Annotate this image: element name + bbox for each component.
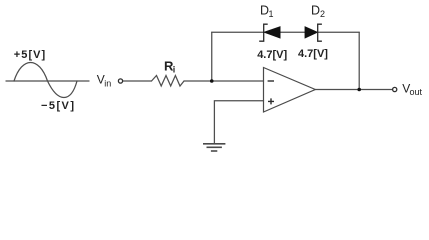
resistor Ri: [152, 76, 185, 87]
wire Vin terminal to resistor Ri: [123, 80, 152, 82]
wire resistor Ri to op-amp inverting input: [184, 80, 264, 82]
label D2: [311, 3, 325, 18]
label D1: [260, 3, 274, 18]
svg-text:4.7[V]: 4.7[V]: [257, 49, 287, 61]
zener diode D2: [305, 24, 322, 41]
op-amp non-inverting pin marking +: [268, 98, 274, 104]
svg-text:i: i: [173, 65, 176, 75]
wire D1 to D2: [280, 31, 305, 33]
op-amp U1: [264, 68, 316, 113]
junction at inverting input node: [210, 79, 214, 83]
svg-text:1: 1: [269, 9, 274, 19]
node label Vin: [97, 73, 112, 89]
node Vin terminal circle: [118, 79, 122, 83]
svg-text:D: D: [311, 3, 320, 17]
junction at output node: [357, 88, 361, 92]
wire feedback top left segment to D1: [212, 31, 264, 33]
svg-text:+5[V]: +5[V]: [14, 49, 46, 61]
label -5[V]: [41, 100, 75, 112]
value label 4.7[V] for D2: [298, 48, 328, 60]
svg-text:4.7[V]: 4.7[V]: [298, 48, 328, 60]
wire non-inverting input to ground: [214, 101, 263, 144]
wire D2 to feedback right branch: [318, 31, 360, 33]
label +5[V]: [14, 49, 46, 61]
svg-text:2: 2: [320, 9, 325, 19]
wire feedback right branch down to output node: [358, 32, 360, 89]
svg-text:out: out: [410, 87, 423, 97]
wire inverting node up to feedback branch: [211, 32, 213, 81]
zener diode D1: [259, 24, 280, 41]
wire op-amp output to Vout terminal: [315, 89, 392, 91]
ground: [203, 144, 225, 151]
svg-text:−5[V]: −5[V]: [41, 100, 75, 112]
source sine waveform: [14, 62, 77, 97]
op-amp inverting pin marking -: [268, 80, 274, 82]
node label Vout: [402, 82, 422, 97]
source waveform axis: [6, 80, 89, 82]
label Ri: [164, 59, 175, 75]
svg-text:in: in: [104, 78, 111, 88]
value label 4.7[V] for D1: [257, 49, 287, 61]
node Vout terminal circle: [393, 87, 397, 91]
